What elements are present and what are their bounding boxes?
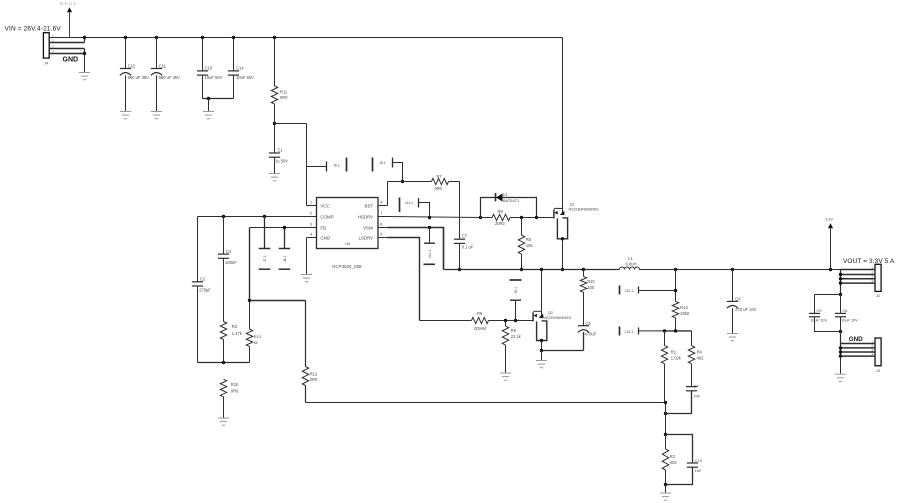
capacitor C7 bbox=[454, 234, 474, 250]
wire to J6-1 bbox=[307, 166, 327, 168]
svg-text:C8: C8 bbox=[843, 308, 848, 313]
svg-text:6.8uH: 6.8uH bbox=[626, 261, 637, 266]
wire bottom comp node bbox=[198, 361, 250, 364]
wire GND pin down bbox=[306, 238, 308, 275]
svg-text:2: 2 bbox=[310, 212, 312, 216]
node C14 top bbox=[232, 36, 235, 39]
svg-text:R14: R14 bbox=[680, 305, 688, 310]
ground under R2 C13 bbox=[660, 493, 671, 500]
svg-text:100nF: 100nF bbox=[225, 260, 237, 265]
svg-text:VOUT = 3.3V 5 A: VOUT = 3.3V 5 A bbox=[843, 258, 895, 265]
svg-text:20k0: 20k0 bbox=[680, 311, 690, 316]
svg-text:402: 402 bbox=[670, 460, 678, 465]
capacitor C10 bbox=[197, 38, 223, 99]
svg-text:J5-1: J5-1 bbox=[379, 161, 386, 165]
ground under J3 bbox=[835, 374, 846, 381]
svg-text:1.02k: 1.02k bbox=[671, 355, 682, 360]
ground under C6 bbox=[727, 334, 738, 341]
wire FB down bbox=[248, 228, 251, 303]
node C3 top bbox=[222, 215, 225, 218]
svg-text:C7: C7 bbox=[462, 234, 468, 239]
wire to R9 bbox=[420, 320, 472, 322]
svg-text:R1: R1 bbox=[671, 349, 677, 354]
svg-text:R13: R13 bbox=[254, 334, 261, 339]
svg-text:470uF: 470uF bbox=[585, 331, 597, 336]
svg-text:BAT54T1: BAT54T1 bbox=[503, 198, 519, 203]
svg-text:J8-1: J8-1 bbox=[283, 255, 287, 262]
svg-text:2nF: 2nF bbox=[694, 394, 701, 399]
capacitor C5 bbox=[578, 292, 597, 336]
capacitor C13 bbox=[687, 458, 702, 473]
testpoint J10-1 bbox=[424, 228, 436, 265]
wire C4 bottom bbox=[664, 391, 692, 415]
svg-text:C4: C4 bbox=[694, 383, 700, 388]
ground under R6 bbox=[500, 373, 511, 380]
svg-text:HSDRV: HSDRV bbox=[358, 215, 373, 220]
ground under C12 bbox=[120, 112, 131, 119]
svg-text:VCC: VCC bbox=[320, 204, 329, 209]
wire C7 to SW bbox=[458, 243, 461, 271]
pin 5 LSDRV bbox=[359, 233, 388, 241]
resistor R14 bbox=[672, 301, 690, 330]
resistor R7 bbox=[432, 174, 449, 191]
svg-text:10uF 50V: 10uF 50V bbox=[236, 75, 254, 80]
svg-text:1: 1 bbox=[310, 201, 312, 205]
wire R9 to Q2 gate bbox=[489, 319, 533, 322]
svg-text:0R0: 0R0 bbox=[310, 377, 318, 382]
power flag VIN arrow bbox=[60, 2, 76, 38]
svg-text:1.47k: 1.47k bbox=[232, 331, 243, 336]
ground under Q2 bbox=[536, 361, 547, 368]
svg-text:R6: R6 bbox=[511, 328, 517, 333]
wire J5-1 to BST bbox=[393, 163, 405, 184]
ground under U5 bbox=[301, 275, 312, 282]
capacitor C12 bbox=[120, 38, 149, 112]
wire J4 pin1-pin2 tie bbox=[83, 36, 86, 43]
svg-text:R11: R11 bbox=[280, 90, 288, 95]
wire Q1 source to SW bbox=[561, 239, 564, 271]
wire BST up bbox=[388, 182, 432, 206]
node C10 top bbox=[201, 36, 204, 39]
inductor L1 bbox=[620, 256, 640, 270]
diode D1 loop bbox=[481, 198, 539, 220]
svg-text:BST: BST bbox=[365, 204, 374, 209]
resistor R6 bbox=[502, 321, 521, 373]
svg-text:1: 1 bbox=[52, 33, 54, 37]
svg-text:NI: NI bbox=[254, 340, 258, 345]
svg-text:680 uF 35V: 680 uF 35V bbox=[128, 75, 149, 80]
svg-text:FB: FB bbox=[320, 226, 326, 231]
svg-text:LSDRV: LSDRV bbox=[359, 236, 374, 241]
svg-text:C9: C9 bbox=[817, 308, 822, 313]
svg-text:J10-1: J10-1 bbox=[428, 250, 432, 259]
svg-text:J11-1: J11-1 bbox=[405, 201, 413, 205]
pin 4 GND bbox=[307, 233, 331, 241]
svg-text:C1: C1 bbox=[278, 148, 284, 153]
resistor R4 bbox=[688, 331, 704, 387]
testpoint J11-1 bbox=[400, 198, 430, 218]
svg-text:NCP3020_S08: NCP3020_S08 bbox=[332, 264, 362, 269]
testpoint J9-1 bbox=[510, 280, 522, 321]
svg-text:10uF 50V: 10uF 50V bbox=[205, 75, 223, 80]
wire VOUT rail bbox=[640, 268, 841, 271]
wire J3 tie bbox=[839, 332, 842, 358]
wire HSDRV bbox=[388, 216, 483, 219]
connector J4 bbox=[43, 33, 84, 66]
svg-text:0R0: 0R0 bbox=[434, 186, 442, 191]
svg-text:VIN = 26V.4-21.6V: VIN = 26V.4-21.6V bbox=[5, 26, 62, 33]
svg-text:NS230SN04NSG: NS230SN04NSG bbox=[543, 316, 572, 320]
svg-text:270pF: 270pF bbox=[199, 288, 211, 293]
svg-text:100: 100 bbox=[587, 285, 595, 290]
capacitor C2 bbox=[192, 277, 211, 363]
capacitor C13 loop bbox=[664, 435, 693, 487]
capacitor C3 bbox=[218, 217, 237, 322]
capacitor C4 bbox=[686, 383, 701, 398]
resistor R11 bbox=[271, 38, 288, 124]
svg-text:R5: R5 bbox=[526, 237, 532, 242]
pin 7 HSDRV bbox=[358, 212, 388, 220]
wire C8 bottom bbox=[840, 317, 842, 344]
wire R1 to R2 node bbox=[664, 403, 667, 437]
node R5 top bbox=[520, 216, 523, 219]
wire R11 to VCC pin bbox=[275, 124, 307, 206]
svg-text:C2: C2 bbox=[200, 277, 206, 282]
svg-text:D1: D1 bbox=[503, 192, 508, 197]
capacitor C1 bbox=[269, 124, 288, 174]
wire J2 tie bbox=[839, 270, 842, 297]
svg-text:C11: C11 bbox=[159, 64, 167, 69]
transistor Q1 bbox=[554, 38, 599, 241]
wire FB net bbox=[250, 226, 307, 229]
wire R14 top bbox=[674, 270, 677, 302]
resistor R12 bbox=[302, 301, 318, 403]
node R11 top bbox=[273, 36, 276, 39]
svg-text:Q1: Q1 bbox=[570, 202, 575, 207]
op-amp U5 NCP3020 body bbox=[317, 198, 379, 270]
svg-text:C12: C12 bbox=[128, 64, 136, 69]
svg-text:R15: R15 bbox=[231, 382, 239, 387]
svg-text:R2: R2 bbox=[670, 454, 676, 459]
resistor R1 bbox=[661, 331, 681, 403]
svg-text:1nF: 1nF bbox=[695, 468, 702, 473]
transistor Q2 bbox=[533, 270, 571, 343]
svg-text:10k: 10k bbox=[526, 243, 534, 248]
svg-text:GND: GND bbox=[849, 336, 863, 343]
connector J3 bbox=[841, 338, 882, 373]
testpoint J6-1 bbox=[327, 158, 347, 172]
wire Q2 to C5 bbox=[542, 332, 584, 351]
ground under C1 bbox=[269, 174, 280, 181]
svg-text:6: 6 bbox=[380, 223, 382, 227]
svg-text:GND: GND bbox=[63, 56, 79, 63]
wire VIN rail bbox=[85, 37, 563, 39]
svg-text:J3: J3 bbox=[876, 368, 881, 373]
svg-text:0OHM: 0OHM bbox=[474, 326, 486, 331]
svg-text:L1: L1 bbox=[628, 256, 633, 261]
wire Q2 source bbox=[540, 341, 543, 361]
svg-text:C6: C6 bbox=[735, 296, 741, 301]
net label VIN bbox=[5, 26, 62, 33]
resistor R8 bbox=[481, 209, 537, 226]
svg-text:2: 2 bbox=[52, 38, 54, 42]
svg-text:R7: R7 bbox=[436, 174, 442, 179]
wire R12 to divider bbox=[306, 401, 668, 404]
svg-text:R10: R10 bbox=[587, 279, 595, 284]
resistor R9 bbox=[472, 311, 489, 331]
net label GND out bbox=[849, 336, 863, 343]
svg-text:R8: R8 bbox=[498, 209, 504, 214]
svg-text:0.1 uF: 0.1 uF bbox=[462, 245, 474, 250]
wire SW node bbox=[444, 268, 620, 271]
svg-text:4: 4 bbox=[310, 233, 312, 237]
testpoint J5-1 bbox=[373, 158, 393, 172]
wire J4 pin3-pin4 tie bbox=[83, 49, 86, 56]
svg-text:R12: R12 bbox=[310, 372, 318, 377]
svg-text:0R0: 0R0 bbox=[280, 95, 288, 100]
wire to C9 bbox=[815, 295, 841, 314]
svg-text:3: 3 bbox=[310, 223, 312, 227]
resistor R10 bbox=[580, 270, 595, 293]
svg-text:20R2: 20R2 bbox=[495, 221, 506, 226]
svg-text:C13: C13 bbox=[695, 458, 702, 463]
svg-text:10uF 10V: 10uF 10V bbox=[841, 317, 858, 322]
resistor R2 bbox=[662, 435, 677, 485]
svg-text:Q2: Q2 bbox=[548, 310, 553, 315]
wire gate Q1 bbox=[537, 217, 554, 219]
svg-text:C14: C14 bbox=[236, 66, 244, 71]
wire C10-C14 bottom bbox=[203, 97, 234, 100]
capacitor C14 bbox=[228, 38, 254, 99]
resistor R5 bbox=[518, 218, 533, 272]
capacitor C11 bbox=[151, 38, 180, 112]
wire LSDRV down bbox=[388, 238, 420, 321]
node C12 top bbox=[124, 36, 127, 39]
wire C9 bottom bbox=[815, 317, 843, 333]
ground under C11 bbox=[151, 112, 162, 119]
testpoint J7-1 bbox=[259, 217, 271, 270]
svg-text:NSZ1B4N508N5G: NSZ1B4N508N5G bbox=[569, 207, 599, 211]
wire FB to R12 bbox=[250, 300, 306, 302]
svg-text:C3: C3 bbox=[226, 249, 232, 254]
svg-text:J6-1: J6-1 bbox=[333, 163, 340, 167]
svg-text:R4: R4 bbox=[697, 349, 703, 354]
svg-text:C5: C5 bbox=[586, 321, 592, 326]
node R11 bottom junction bbox=[273, 122, 276, 125]
ground under C10 C14 bbox=[203, 112, 214, 119]
svg-text:270 uF 10V: 270 uF 10V bbox=[735, 307, 756, 312]
node J7 stem top bbox=[263, 215, 266, 218]
svg-text:J12-1: J12-1 bbox=[625, 289, 634, 293]
resistor R15 bbox=[220, 379, 239, 417]
wire COMP down C2 bbox=[197, 217, 199, 282]
svg-text:7: 7 bbox=[380, 212, 382, 216]
net label VOUT bbox=[843, 258, 895, 265]
diode D1 bbox=[496, 192, 520, 203]
testpoint J13-1 bbox=[620, 327, 665, 336]
wire divider node bbox=[663, 329, 692, 332]
svg-text:VSW: VSW bbox=[363, 226, 374, 231]
pin 6 VSW bbox=[363, 223, 387, 231]
pin 3 FB bbox=[307, 223, 327, 231]
svg-text:10uF 10V: 10uF 10V bbox=[810, 317, 827, 322]
svg-text:680 uF 35V: 680 uF 35V bbox=[159, 75, 180, 80]
pin 8 BST bbox=[365, 201, 388, 209]
testpoint J12-1 bbox=[620, 286, 676, 295]
svg-text:J9-1: J9-1 bbox=[514, 287, 518, 294]
node C11 top bbox=[155, 36, 158, 39]
svg-text:GND: GND bbox=[320, 236, 330, 241]
pin 2 COMP bbox=[307, 212, 334, 220]
svg-text:4: 4 bbox=[52, 49, 54, 53]
wire COMP net bbox=[198, 216, 307, 218]
svg-text:J7-1: J7-1 bbox=[263, 255, 267, 262]
resistor R13 bbox=[246, 301, 261, 363]
wire VSW bbox=[388, 226, 444, 270]
pin 1 VCC bbox=[307, 201, 330, 209]
wire J4 gnd stem bbox=[84, 54, 86, 73]
connector J2 bbox=[841, 264, 882, 298]
svg-text:22.1k: 22.1k bbox=[511, 334, 522, 339]
svg-text:J2: J2 bbox=[876, 293, 881, 298]
capacitor C8 bbox=[835, 295, 858, 323]
resistor R3 bbox=[220, 322, 242, 363]
wire R7 to C7 bbox=[449, 182, 460, 240]
svg-text:8: 8 bbox=[380, 201, 382, 205]
testpoint J8-1 bbox=[279, 228, 291, 270]
svg-text:5: 5 bbox=[380, 233, 382, 237]
svg-text:COMP: COMP bbox=[320, 215, 333, 220]
svg-text:3.3V: 3.3V bbox=[825, 218, 833, 222]
svg-text:1u 50V: 1u 50V bbox=[275, 159, 288, 164]
wire gnd stem C10 bbox=[208, 99, 210, 112]
svg-text:R9: R9 bbox=[477, 311, 483, 316]
svg-text:3: 3 bbox=[52, 44, 54, 48]
wire to ground R2 bbox=[665, 485, 667, 493]
label GND J4 bbox=[63, 56, 79, 63]
svg-text:J4: J4 bbox=[44, 61, 49, 66]
power flag 3.3V bbox=[825, 218, 833, 270]
svg-text:U5: U5 bbox=[345, 241, 351, 246]
capacitor C6 bbox=[727, 270, 757, 334]
svg-text:R3: R3 bbox=[232, 324, 238, 329]
svg-text:402: 402 bbox=[697, 355, 705, 360]
ground under R15 bbox=[218, 418, 229, 425]
wire J3 gnd stem bbox=[840, 356, 842, 374]
svg-text:J13-1: J13-1 bbox=[625, 330, 634, 334]
svg-text:C10: C10 bbox=[205, 66, 213, 71]
svg-text:0R0: 0R0 bbox=[231, 388, 239, 393]
capacitor C9 bbox=[809, 308, 828, 322]
svg-text:26.4-21.6: 26.4-21.6 bbox=[60, 2, 76, 6]
ground under J4 bbox=[79, 73, 90, 80]
